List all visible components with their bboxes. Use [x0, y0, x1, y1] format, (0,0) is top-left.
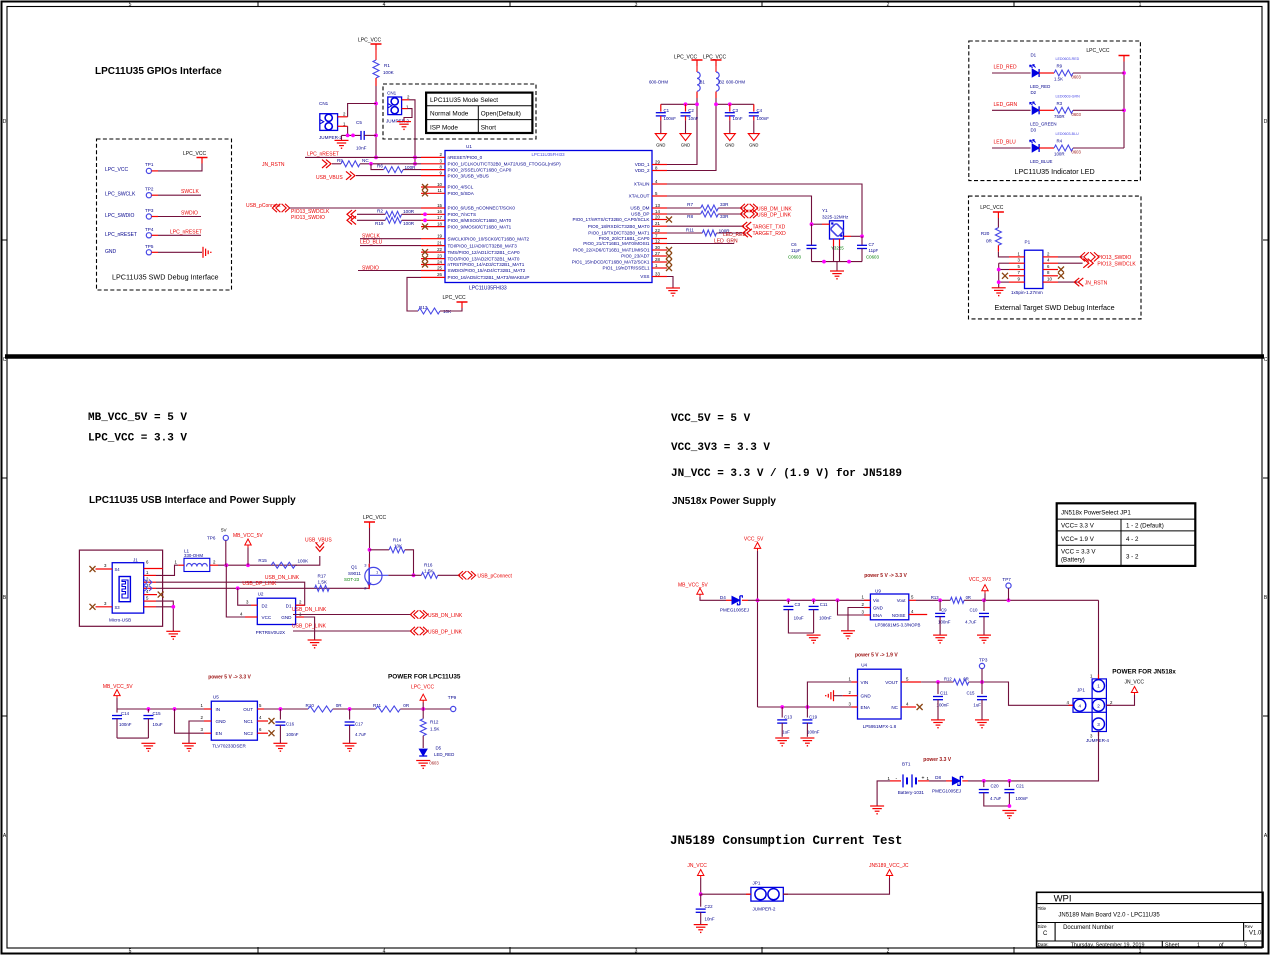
svg-text:14: 14: [655, 209, 660, 214]
svg-text:4.7uF: 4.7uF: [355, 732, 367, 737]
no-connect: [666, 259, 672, 265]
ground crystal: [830, 270, 844, 272]
svg-text:100R: 100R: [1054, 152, 1065, 157]
wire J1 shield to loop: [162, 568, 164, 570]
svg-text:USB_DP_LINK: USB_DP_LINK: [242, 581, 277, 587]
junction: [684, 102, 688, 106]
svg-text:4 - 2: 4 - 2: [1126, 536, 1139, 543]
junction: [413, 162, 417, 166]
svg-text:LED_GRN: LED_GRN: [994, 102, 1018, 108]
svg-text:4.7uF: 4.7uF: [990, 796, 1002, 801]
svg-text:Vin: Vin: [873, 598, 880, 603]
wire U5 EN: [175, 709, 205, 733]
svg-text:PIO0_1/CLKOUT/CT32B0_MAT2/USB_: PIO0_1/CLKOUT/CT32B0_MAT2/USB_FTOGGL(nIS…: [448, 162, 562, 167]
ground C11 u4: [931, 719, 945, 721]
svg-text:JN_RSTN: JN_RSTN: [262, 162, 285, 168]
pin 16 U1: [421, 213, 445, 215]
pin 2 P1: [1043, 256, 1058, 258]
wire D+ branch to U2: [238, 588, 251, 605]
svg-text:D1: D1: [286, 603, 292, 608]
svg-text:Y1: Y1: [822, 208, 828, 213]
resistor R12 led: [422, 709, 424, 719]
svg-text:LPC_VCC: LPC_VCC: [105, 167, 128, 173]
pin 20 U1: [652, 219, 667, 221]
svg-text:GND: GND: [656, 143, 665, 148]
svg-text:LED_BLU: LED_BLU: [360, 240, 383, 246]
svg-text:LED0603-GRN: LED0603-GRN: [1056, 94, 1081, 98]
wire C5 to R1 net: [364, 134, 376, 136]
svg-text:Vout: Vout: [897, 598, 907, 603]
svg-text:0603: 0603: [1072, 112, 1082, 117]
no-connect U4 NC: [917, 704, 923, 710]
wire USB_DM to R7: [667, 207, 701, 209]
junction: [699, 892, 703, 896]
svg-text:100K: 100K: [383, 70, 395, 75]
wire J1 shield loop: [79, 550, 162, 626]
ground C3: [724, 134, 735, 141]
wire TP3 SWDIO: [158, 216, 201, 218]
pin 18 U1: [421, 226, 445, 228]
svg-text:0R: 0R: [336, 703, 343, 708]
svg-text:TDI/PIO0_11/AD0/CT32B0_MAT3: TDI/PIO0_11/AD0/CT32B0_MAT3: [448, 243, 518, 248]
svg-text:PIO0_17/nRTS/CT32B0_CAP0/SCLK: PIO0_17/nRTS/CT32B0_CAP0/SCLK: [572, 217, 650, 222]
ground U5: [182, 742, 196, 744]
pin 26 U1: [421, 276, 445, 278]
svg-text:1: 1: [1139, 2, 1142, 8]
wire R11 to TP9: [400, 708, 450, 710]
capacitor C17: [349, 709, 351, 720]
wire U4 out: [921, 681, 953, 683]
wire to JP1 jumper: [701, 893, 751, 895]
svg-text:VDD_1: VDD_1: [635, 162, 650, 167]
section divider line: [5, 354, 1264, 359]
pin 8 P1: [1043, 275, 1058, 277]
svg-text:nTRST/PIO0_14/AD3/CT32B1_MAT1: nTRST/PIO0_14/AD3/CT32B1_MAT1: [448, 262, 525, 267]
svg-text:PIO0_16/AD5/CT32B1_MAT3/WAKEUP: PIO0_16/AD5/CT32B1_MAT3/WAKEUP: [448, 275, 530, 280]
wire R13 out: [964, 599, 1098, 601]
ground C16: [273, 742, 287, 744]
svg-text:R15: R15: [258, 558, 267, 563]
svg-text:13: 13: [655, 203, 660, 208]
junction: [728, 102, 732, 106]
wire R5 to pin3: [360, 163, 421, 165]
junction: [246, 563, 250, 567]
capacitor C13: [781, 707, 783, 718]
svg-text:C16: C16: [286, 722, 295, 727]
svg-text:Date:: Date:: [1038, 942, 1049, 947]
resistor R1: [373, 60, 379, 78]
wire LED_GRN row: [992, 109, 1031, 111]
svg-text:LPC_VCC = 3.3 V: LPC_VCC = 3.3 V: [88, 433, 187, 445]
junction: [822, 260, 826, 264]
svg-text:VCC_5V = 5 V: VCC_5V = 5 V: [671, 413, 751, 425]
no-connect: [666, 265, 672, 271]
port USB_DP_LINK: [740, 210, 757, 218]
svg-text:C11: C11: [940, 691, 948, 696]
capacitor C9: [939, 600, 941, 611]
svg-text:11pF: 11pF: [791, 248, 801, 253]
svg-text:Open(Default): Open(Default): [481, 111, 521, 118]
wire U9 gnd: [848, 608, 864, 631]
svg-text:VCC_3V3 = 3.3 V: VCC_3V3 = 3.3 V: [671, 442, 770, 454]
svg-text:100nF: 100nF: [757, 116, 770, 121]
svg-text:10nF: 10nF: [705, 917, 715, 922]
wire LED rail: [1123, 62, 1125, 149]
wire R16 to port: [438, 574, 460, 576]
svg-text:PIO0_21/CT16B1_MAT0/MOSI1: PIO0_21/CT16B1_MAT0/MOSI1: [583, 241, 650, 246]
svg-text:LPC11U35 Indicator LED: LPC11U35 Indicator LED: [1015, 167, 1095, 176]
frame zone ticks top: [257, 2, 259, 7]
wire crystal right: [851, 235, 862, 237]
junction: [1008, 804, 1012, 808]
svg-text:B2: B2: [719, 80, 725, 85]
no-connect: [422, 262, 428, 268]
svg-text:0R: 0R: [403, 703, 410, 708]
svg-text:12: 12: [655, 238, 660, 243]
wire R8 to port: [718, 213, 742, 215]
pin 14 U1: [652, 213, 667, 215]
svg-text:JN_VCC: JN_VCC: [1125, 680, 1145, 686]
svg-text:17: 17: [437, 215, 442, 220]
svg-text:USB_DP_LINK: USB_DP_LINK: [757, 212, 792, 218]
wire LPC_VCC stem: [422, 703, 424, 710]
wire battery left: [877, 781, 890, 806]
pin 21 U1: [652, 225, 667, 227]
svg-text:BT1: BT1: [902, 762, 911, 767]
svg-text:24: 24: [437, 259, 442, 264]
junction: [413, 156, 417, 160]
svg-text:30: 30: [655, 245, 660, 250]
junction: [982, 598, 986, 602]
svg-text:3: 3: [1097, 722, 1100, 727]
port JN_RSTN: [1074, 278, 1083, 286]
svg-text:U5: U5: [213, 695, 219, 700]
svg-text:0603: 0603: [1072, 75, 1082, 80]
svg-text:LED_RED: LED_RED: [994, 65, 1017, 71]
svg-text:power 3.3 V: power 3.3 V: [923, 757, 951, 763]
wire C5 net: [342, 134, 362, 136]
svg-text:S4: S4: [115, 567, 121, 572]
svg-text:LPC_SWDIO: LPC_SWDIO: [105, 213, 135, 219]
svg-text:C2: C2: [688, 108, 694, 113]
pin 2 U2: [296, 604, 305, 606]
svg-text:1.5K: 1.5K: [318, 579, 328, 584]
svg-text:18: 18: [437, 221, 442, 226]
ground C2: [680, 134, 691, 141]
junction: [423, 218, 427, 222]
svg-text:C20: C20: [991, 784, 1000, 789]
svg-text:1: 1: [1197, 942, 1200, 948]
junction: [421, 707, 425, 711]
wire R20 to P1 pin1: [998, 252, 1009, 257]
capacitor C3 jn: [787, 600, 789, 604]
svg-text:JP1: JP1: [1077, 688, 1085, 693]
svg-text:P1: P1: [1025, 240, 1031, 245]
svg-text:nRESET/PIO0_0: nRESET/PIO0_0: [448, 155, 483, 160]
svg-text:U4: U4: [861, 663, 867, 668]
pin 8 U1: [421, 169, 445, 171]
dashed box mode select: [383, 84, 536, 139]
wire base: [388, 574, 413, 576]
pin 11 U1: [421, 192, 445, 194]
port USB_pConnect right: [458, 571, 475, 579]
pin 25 U1: [421, 270, 445, 272]
svg-text:JN_VCC: JN_VCC: [687, 863, 707, 869]
capacitor C16: [279, 709, 281, 720]
svg-text:GND: GND: [281, 615, 292, 620]
svg-text:R8: R8: [687, 214, 693, 219]
no-connect: [422, 184, 428, 190]
wire R19 to pin17: [402, 219, 421, 221]
svg-text:R19: R19: [375, 221, 384, 226]
ferrite bead B2: [715, 66, 717, 72]
svg-text:PIO13_SWDIO: PIO13_SWDIO: [1097, 255, 1131, 261]
svg-text:Short: Short: [481, 124, 496, 131]
svg-text:PIO0_5/SDA: PIO0_5/SDA: [448, 191, 475, 196]
svg-text:LPC_VCC: LPC_VCC: [411, 685, 434, 691]
svg-text:LP5951MFX-1.8: LP5951MFX-1.8: [863, 724, 897, 729]
svg-text:R12: R12: [430, 720, 439, 725]
wire B1 rail: [661, 103, 697, 105]
svg-text:10nF: 10nF: [733, 116, 743, 121]
svg-text:16: 16: [437, 209, 442, 214]
svg-text:S3: S3: [115, 605, 121, 610]
svg-text:USB_pConnect: USB_pConnect: [477, 574, 512, 580]
pin 30 U1: [652, 249, 667, 251]
pin 7 U1: [652, 238, 667, 240]
svg-text:LPC_VCC: LPC_VCC: [363, 515, 386, 521]
svg-text:TP6: TP6: [207, 536, 216, 541]
svg-text:21: 21: [655, 221, 660, 226]
svg-text:2: 2: [887, 2, 890, 8]
svg-text:PIO0_9/MOSI0/CT16B0_MAT1: PIO0_9/MOSI0/CT16B0_MAT1: [448, 224, 512, 229]
svg-text:29: 29: [655, 159, 660, 164]
capacitor C2: [685, 104, 687, 111]
junction: [714, 102, 718, 106]
svg-text:GND: GND: [725, 143, 734, 148]
capacitor C20: [983, 781, 985, 787]
no-connect: [422, 190, 428, 196]
svg-text:PIO0_3/USB_VBUS: PIO0_3/USB_VBUS: [448, 173, 489, 178]
svg-text:JN_RSTN: JN_RSTN: [1085, 280, 1108, 286]
wire USB_pConnect to pin15: [289, 207, 421, 209]
junction: [812, 598, 816, 602]
svg-text:PIO0_19/TXD/CT32B0_MAT1: PIO0_19/TXD/CT32B0_MAT1: [588, 231, 650, 236]
no-connect U5 NC1: [269, 718, 275, 724]
svg-text:PIO0_22/AD6/CT16B1_MAT1/MISO1: PIO0_22/AD6/CT16B1_MAT1/MISO1: [573, 248, 650, 253]
ground U2: [308, 639, 322, 641]
svg-text:JN518x Power Supply: JN518x Power Supply: [672, 496, 776, 507]
wire CN1i pin1 to gnd: [404, 109, 412, 122]
ground C22: [694, 924, 708, 926]
wire U2 gnd: [304, 617, 315, 640]
ground J1: [166, 630, 180, 632]
ground U4 noise: [833, 690, 835, 701]
wire D+ line: [156, 587, 369, 589]
svg-text:Document Number: Document Number: [1063, 925, 1113, 931]
svg-text:26: 26: [437, 272, 442, 277]
svg-text:PIO0_7/nCTS: PIO0_7/nCTS: [448, 212, 477, 217]
svg-text:D: D: [3, 119, 7, 125]
wire R12 out: [969, 682, 1073, 705]
svg-text:NC2: NC2: [244, 731, 254, 736]
no-connect: [666, 253, 672, 259]
svg-text:LPC_nRESET: LPC_nRESET: [170, 229, 202, 235]
pin 3 U1: [421, 163, 445, 165]
svg-text:C14: C14: [121, 711, 130, 716]
table LPC11U35 Mode Select: [426, 93, 532, 133]
svg-text:USB_VBUS: USB_VBUS: [305, 538, 332, 544]
wire to R14: [370, 549, 390, 551]
pin 1 U5: [204, 708, 211, 710]
wire VCC_5V to U4 row: [758, 706, 852, 708]
svg-text:USB_VBUS: USB_VBUS: [316, 175, 343, 181]
wire R6 to pin8: [403, 169, 421, 171]
svg-text:TP1: TP1: [145, 162, 154, 167]
svg-text:R3: R3: [1057, 101, 1063, 106]
ground C20 C21: [1002, 810, 1016, 812]
svg-text:R11: R11: [686, 227, 695, 232]
svg-text:power 5 V -> 3.3 V: power 5 V -> 3.3 V: [208, 675, 251, 681]
ground C9: [933, 634, 947, 636]
svg-text:C5: C5: [356, 120, 362, 125]
pin 24 U1: [421, 264, 445, 266]
wire D- line: [156, 582, 305, 605]
capacitor C14: [116, 709, 118, 713]
wire XTALOUT: [667, 196, 812, 224]
wire D8 out: [968, 780, 1009, 782]
svg-text:USB_DP: USB_DP: [631, 212, 649, 217]
svg-text:C0603: C0603: [866, 255, 879, 260]
junction: [368, 548, 372, 552]
capacitor C1: [660, 104, 662, 111]
junction: [171, 605, 175, 609]
svg-text:TDO/PIO0_13/AD2/CT32B1_MAT0: TDO/PIO0_13/AD2/CT32B1_MAT0: [448, 256, 520, 261]
svg-text:100nF: 100nF: [819, 616, 832, 621]
svg-text:R20: R20: [981, 231, 990, 236]
svg-text:PRTR5V0U2X: PRTR5V0U2X: [256, 630, 286, 635]
svg-text:PMEG1005EJ: PMEG1005EJ: [932, 789, 961, 794]
pin 21 U1: [421, 245, 445, 247]
pin 33 U1: [652, 276, 667, 278]
junction: [236, 586, 240, 590]
junction: [997, 280, 1001, 284]
svg-text:4: 4: [1079, 703, 1082, 708]
ground C14 C15: [141, 742, 155, 744]
svg-text:0603: 0603: [429, 761, 439, 766]
svg-text:GND: GND: [681, 143, 690, 148]
svg-text:Battery-1031: Battery-1031: [898, 790, 925, 795]
svg-text:JN5189_VCC_JC: JN5189_VCC_JC: [869, 863, 909, 869]
svg-text:10uF: 10uF: [153, 722, 163, 727]
pin 2 U5: [204, 720, 211, 722]
svg-text:TP3: TP3: [145, 208, 154, 213]
svg-text:U1: U1: [466, 144, 472, 149]
svg-text:D4: D4: [720, 595, 726, 600]
junction: [780, 705, 784, 709]
svg-text:C: C: [1264, 357, 1268, 363]
svg-text:R7: R7: [687, 202, 693, 207]
frame zone ticks bottom: [257, 947, 259, 954]
junction: [847, 260, 851, 264]
svg-text:1x5pin-1.27mm: 1x5pin-1.27mm: [1011, 290, 1043, 295]
junction: [936, 680, 940, 684]
svg-text:MB_VCC_5V = 5 V: MB_VCC_5V = 5 V: [88, 412, 187, 424]
pin 9 P1: [1009, 281, 1025, 283]
svg-text:MB_VCC_5V: MB_VCC_5V: [678, 583, 708, 589]
svg-text:4: 4: [383, 949, 386, 955]
svg-text:11pF: 11pF: [869, 248, 879, 253]
svg-text:TP3: TP3: [979, 658, 988, 663]
svg-text:PIO0_18/RXD/CT32B0_MAT0: PIO0_18/RXD/CT32B0_MAT0: [588, 224, 650, 229]
svg-text:POWER FOR JN518x: POWER FOR JN518x: [1112, 669, 1176, 676]
ground C10: [977, 634, 991, 636]
svg-text:15: 15: [437, 203, 442, 208]
junction: [1007, 598, 1011, 602]
svg-text:PIO13_SWDCLK: PIO13_SWDCLK: [1097, 262, 1136, 268]
wire LED_RED row: [992, 72, 1031, 74]
junction: [997, 268, 1001, 272]
svg-text:750R: 750R: [1054, 114, 1065, 119]
svg-text:Thursday, September 19, 2019: Thursday, September 19, 2019: [1071, 942, 1145, 948]
svg-text:11: 11: [437, 188, 442, 193]
svg-text:10uF: 10uF: [794, 616, 804, 621]
svg-text:1 - 2 (Default): 1 - 2 (Default): [1126, 523, 1164, 530]
wire VSS to ground: [667, 277, 673, 289]
svg-text:LPC_SWCLK: LPC_SWCLK: [105, 192, 136, 198]
wire nRESET: [305, 156, 421, 158]
pin 4 U5 nc1: [257, 720, 268, 722]
svg-text:NOISE: NOISE: [892, 613, 906, 618]
wire R14 to base node: [405, 550, 414, 576]
junction: [810, 222, 814, 226]
junction: [346, 134, 350, 138]
junction: [412, 573, 416, 577]
pin 17 U1: [421, 219, 445, 221]
svg-text:1uF: 1uF: [782, 730, 790, 735]
wire J1 gnd: [156, 601, 173, 607]
ground C13: [775, 737, 789, 739]
ground battery: [870, 805, 884, 807]
svg-text:3: 3: [635, 949, 638, 955]
wire JN_VCC to JP1 pin2: [1106, 695, 1134, 705]
ground C3 C11: [807, 634, 821, 636]
svg-text:D5: D5: [436, 746, 442, 751]
svg-text:10: 10: [1047, 277, 1052, 282]
wire LPC_VCC to collector: [369, 528, 371, 564]
svg-text:20: 20: [655, 214, 660, 219]
junction: [348, 707, 352, 711]
no-connect: [422, 249, 428, 255]
wire P1 gnd pins: [999, 262, 1009, 264]
wire R9 to rail: [1073, 72, 1124, 74]
port TARGET_RXD: [743, 229, 752, 237]
svg-text:R17: R17: [318, 574, 327, 579]
wire node to R6: [371, 164, 384, 170]
svg-text:Size: Size: [1038, 924, 1047, 929]
wire CN1 pin1 down: [347, 126, 349, 135]
svg-text:C17: C17: [355, 722, 364, 727]
svg-text:VCC= 3.3 V: VCC= 3.3 V: [1061, 523, 1095, 530]
wire SWDIO to pin25: [358, 270, 421, 272]
ground C4: [748, 134, 759, 141]
capacitor C15 u4: [981, 682, 983, 694]
svg-text:SWCLK: SWCLK: [181, 189, 199, 195]
svg-text:LPC11U35FHI33: LPC11U35FHI33: [531, 152, 565, 157]
wire LED_BLU to pin21: [360, 245, 421, 247]
svg-text:VCC= 1.9 V: VCC= 1.9 V: [1061, 536, 1095, 543]
wire DP tie: [293, 630, 412, 632]
